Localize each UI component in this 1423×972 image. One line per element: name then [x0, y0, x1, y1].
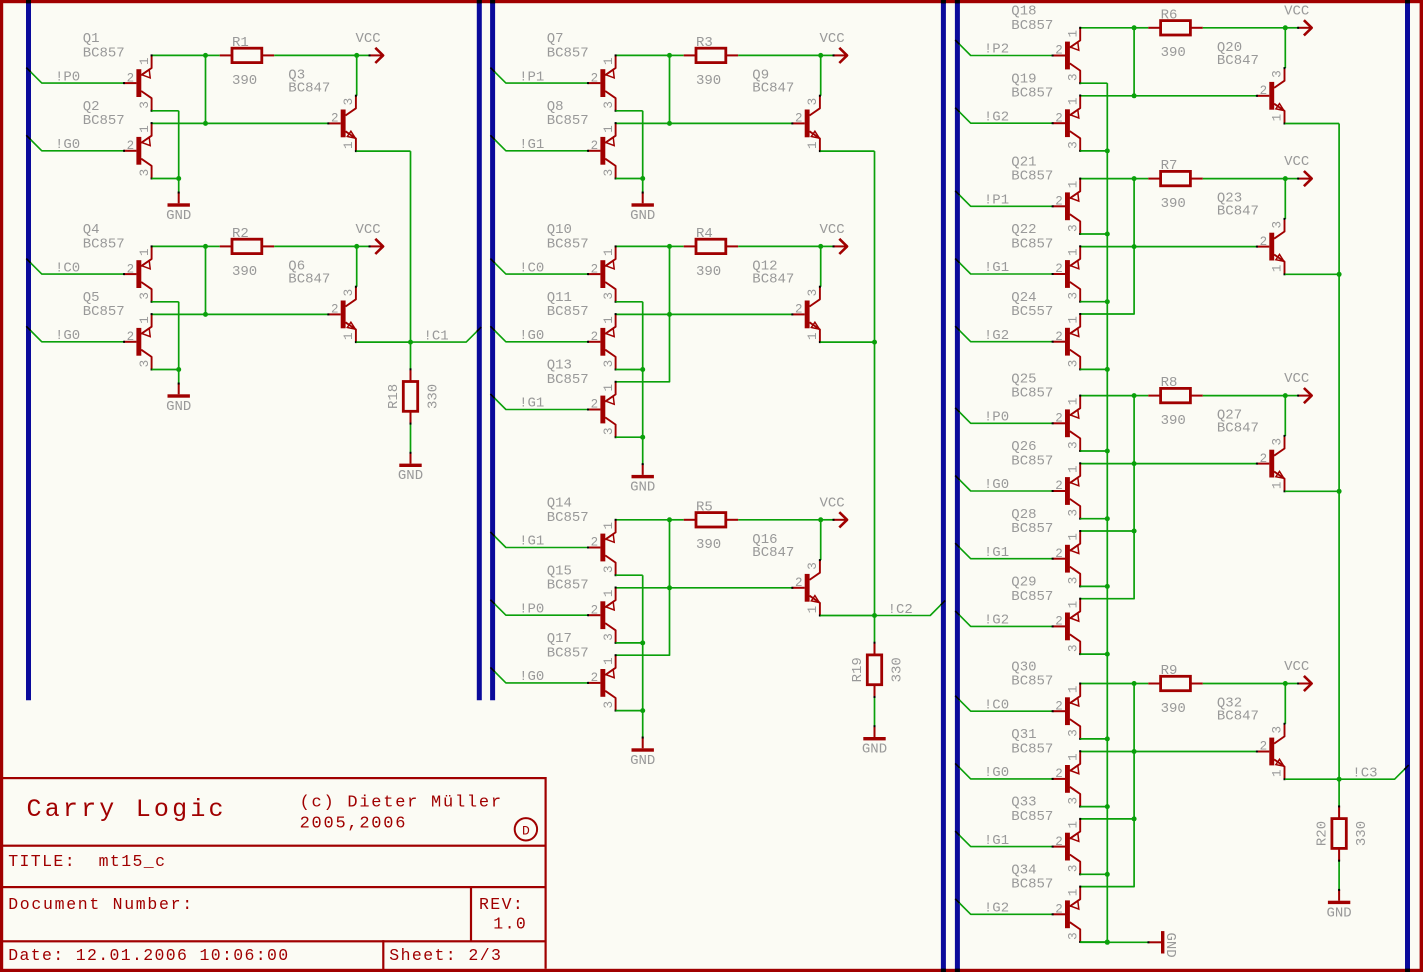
junction [1132, 529, 1137, 534]
wire [178, 111, 180, 179]
wire [152, 110, 179, 112]
wire [274, 54, 357, 56]
wire [1080, 819, 1134, 887]
svg-text:3: 3 [138, 292, 152, 300]
svg-text:!P2: !P2 [984, 42, 1009, 58]
transistor Q33 BC857 (PNP) [1011, 795, 1081, 876]
svg-text:BC857: BC857 [83, 113, 125, 129]
svg-text:1: 1 [342, 141, 356, 149]
svg-text:!C0: !C0 [984, 697, 1009, 713]
svg-text:R1: R1 [232, 35, 249, 51]
transistor Q11 BC857 (PNP) [547, 290, 617, 371]
svg-text:VCC: VCC [1284, 3, 1309, 19]
ground [1326, 889, 1351, 921]
wire [178, 370, 180, 384]
junction [667, 53, 672, 58]
svg-text:R6: R6 [1161, 7, 1178, 23]
wire [1284, 179, 1286, 219]
net !G1 [490, 135, 588, 153]
resistor R4 390 [670, 226, 739, 280]
net !P0 [955, 408, 1052, 426]
svg-text:1: 1 [1066, 821, 1080, 829]
wire [642, 179, 644, 193]
svg-text:1: 1 [602, 590, 616, 598]
junction [1132, 25, 1137, 30]
wire [642, 370, 644, 438]
VCC supply symbol [356, 31, 384, 63]
svg-text:BC857: BC857 [547, 304, 589, 320]
svg-text:!G2: !G2 [984, 901, 1009, 917]
svg-text:BC847: BC847 [752, 545, 794, 561]
svg-text:BC857: BC857 [1011, 674, 1053, 690]
svg-text:3: 3 [1066, 865, 1080, 873]
wire [1080, 873, 1107, 875]
junction [1105, 584, 1110, 589]
svg-text:3: 3 [806, 289, 820, 297]
net !G2 [955, 108, 1052, 126]
net !P0 [26, 68, 124, 86]
junction [1105, 516, 1110, 521]
svg-text:!G1: !G1 [519, 534, 544, 550]
net !C2 [875, 601, 946, 618]
title block frame [2, 777, 547, 971]
junction [1105, 367, 1110, 372]
junction [1105, 940, 1110, 945]
svg-text:1: 1 [602, 657, 616, 665]
svg-text:1: 1 [1066, 398, 1080, 406]
junction [1283, 25, 1288, 30]
svg-text:BC847: BC847 [752, 271, 794, 287]
net !P1 [955, 191, 1052, 209]
svg-text:!G0: !G0 [55, 137, 80, 153]
svg-text:Carry Logic: Carry Logic [27, 795, 227, 824]
wire [1203, 27, 1286, 29]
wire [205, 55, 207, 123]
transistor Q2 BC857 (PNP) [83, 99, 153, 180]
svg-text:!G1: !G1 [984, 545, 1009, 561]
svg-text:3: 3 [1066, 360, 1080, 368]
net !P0 [490, 600, 588, 618]
svg-text:1: 1 [806, 332, 820, 340]
wire [1203, 395, 1286, 397]
svg-text:1: 1 [1271, 482, 1285, 490]
transistor Q18 BC857 (PNP) [1011, 4, 1081, 85]
svg-text:330: 330 [426, 384, 442, 409]
resistor R7 390 [1134, 158, 1203, 212]
svg-text:1: 1 [342, 332, 356, 340]
net !C0 [490, 259, 588, 277]
junction [1105, 940, 1110, 945]
svg-text:2: 2 [795, 576, 803, 590]
VCC supply symbol [356, 222, 384, 254]
wire [616, 642, 643, 644]
net !C3 [1339, 765, 1409, 781]
transistor Q17 BC857 (PNP) [547, 631, 617, 712]
svg-text:1: 1 [1066, 533, 1080, 541]
wire (collector bus column 3) [1106, 83, 1108, 942]
junction [1283, 176, 1288, 181]
bus line (left) [26, 0, 31, 700]
svg-text:1: 1 [806, 606, 820, 614]
transistor Q1 BC857 (PNP) [83, 31, 153, 112]
wire [1080, 518, 1107, 520]
transistor Q31 BC857 (PNP) [1011, 727, 1081, 808]
svg-text:2: 2 [1055, 44, 1063, 58]
net !G0 [26, 135, 124, 153]
junction [1132, 816, 1137, 821]
wire [669, 246, 671, 314]
transistor Q16 BC847 (NPN) [752, 532, 821, 617]
svg-text:1: 1 [1271, 265, 1285, 273]
resistor R3 390 [670, 35, 739, 89]
junction [1105, 804, 1110, 809]
svg-text:!P0: !P0 [55, 69, 80, 85]
wire [616, 54, 670, 56]
junction [1337, 489, 1342, 494]
svg-text:GND: GND [630, 753, 655, 769]
svg-text:3: 3 [602, 169, 616, 177]
junction [640, 708, 645, 713]
wire [1080, 464, 1134, 531]
svg-text:3: 3 [1066, 509, 1080, 517]
svg-text:BC857: BC857 [83, 304, 125, 320]
bus line (middle pair, left) [477, 0, 482, 700]
svg-text:R3: R3 [696, 35, 713, 51]
wire [178, 179, 180, 193]
svg-text:BC847: BC847 [752, 80, 794, 96]
wire [616, 369, 643, 371]
transistor Q6 BC847 (NPN) [288, 258, 357, 343]
junction [640, 435, 645, 440]
junction [667, 244, 672, 249]
wire [616, 122, 793, 124]
wire [642, 111, 644, 179]
junction [1132, 461, 1137, 466]
junction [818, 517, 823, 522]
svg-text:BC857: BC857 [1011, 877, 1053, 893]
svg-text:Sheet: 2/3: Sheet: 2/3 [389, 946, 502, 965]
transistor Q10 BC857 (PNP) [547, 222, 617, 303]
net !G1 [490, 394, 588, 412]
svg-text:1: 1 [138, 249, 152, 257]
wire [738, 519, 821, 521]
transistor Q29 BC857 (PNP) [1011, 575, 1081, 656]
svg-text:(c) Dieter Müller: (c) Dieter Müller [300, 794, 503, 813]
svg-text:390: 390 [232, 73, 257, 89]
svg-text:2: 2 [591, 71, 599, 85]
junction [818, 244, 823, 249]
transistor Q19 BC857 (PNP) [1011, 71, 1081, 152]
svg-text:R4: R4 [696, 226, 713, 242]
svg-text:!C0: !C0 [519, 260, 544, 276]
svg-text:TITLE: mt15_c: TITLE: mt15_c [8, 852, 166, 871]
wire [1285, 273, 1339, 275]
VCC supply symbol [1284, 371, 1312, 403]
ground [398, 452, 423, 484]
svg-text:!C1: !C1 [424, 328, 449, 344]
svg-text:R18: R18 [386, 384, 402, 409]
junction [667, 312, 672, 317]
transistor Q3 BC847 (NPN) [288, 67, 357, 152]
wire [616, 519, 670, 521]
svg-text:3: 3 [806, 562, 820, 570]
transistor Q7 BC857 (PNP) [547, 31, 617, 112]
svg-text:BC857: BC857 [1011, 453, 1053, 469]
svg-text:390: 390 [1161, 45, 1186, 61]
net !C0 [26, 259, 124, 277]
junction [1105, 652, 1110, 657]
VCC supply symbol [820, 222, 848, 254]
svg-text:2: 2 [591, 671, 599, 685]
svg-text:BC857: BC857 [547, 372, 589, 388]
junction [667, 517, 672, 522]
svg-text:3: 3 [1066, 141, 1080, 149]
svg-text:1: 1 [1066, 316, 1080, 324]
svg-text:1: 1 [1271, 114, 1285, 122]
wire [1133, 179, 1135, 247]
junction [1105, 736, 1110, 741]
junction [1337, 272, 1342, 277]
svg-text:BC847: BC847 [288, 80, 330, 96]
svg-text:BC857: BC857 [1011, 169, 1053, 185]
wire [152, 178, 179, 180]
svg-text:2: 2 [591, 139, 599, 153]
VCC supply symbol [1284, 3, 1312, 35]
svg-text:2: 2 [1055, 479, 1063, 493]
wire [820, 520, 822, 560]
net !G1 [955, 543, 1052, 561]
junction [640, 176, 645, 181]
svg-text:2: 2 [1260, 740, 1268, 754]
svg-text:1: 1 [138, 125, 152, 133]
svg-text:390: 390 [696, 264, 721, 280]
svg-text:1: 1 [602, 522, 616, 530]
wire [1080, 233, 1107, 235]
wire [616, 436, 643, 438]
svg-text:BC857: BC857 [547, 237, 589, 253]
svg-text:VCC: VCC [1284, 659, 1309, 675]
resistor R5 390 [670, 499, 739, 553]
svg-text:BC857: BC857 [547, 510, 589, 526]
wire [820, 150, 874, 152]
svg-text:BC847: BC847 [1217, 709, 1259, 725]
svg-text:BC847: BC847 [1217, 53, 1259, 69]
ground [630, 192, 655, 224]
svg-text:3: 3 [138, 360, 152, 368]
svg-text:2: 2 [1260, 235, 1268, 249]
transistor Q25 BC857 (PNP) [1011, 371, 1081, 452]
svg-text:1: 1 [602, 249, 616, 257]
svg-text:BC847: BC847 [288, 271, 330, 287]
svg-text:GND: GND [166, 208, 191, 224]
svg-text:VCC: VCC [820, 31, 845, 47]
wire [356, 341, 410, 343]
wire [1203, 683, 1286, 685]
svg-text:2: 2 [1055, 412, 1063, 426]
resistor R18 330 [386, 342, 442, 453]
wire [1203, 178, 1286, 180]
wire [1080, 247, 1134, 314]
svg-text:3: 3 [1066, 441, 1080, 449]
junction [1105, 148, 1110, 153]
junction [667, 121, 672, 126]
svg-text:BC857: BC857 [1011, 809, 1053, 825]
junction [1132, 176, 1137, 181]
svg-text:!G1: !G1 [519, 396, 544, 412]
svg-text:GND: GND [1162, 933, 1178, 958]
svg-text:D: D [522, 823, 530, 838]
svg-text:330: 330 [1354, 821, 1370, 846]
svg-text:1: 1 [1066, 30, 1080, 38]
wire [1080, 941, 1107, 943]
svg-text:1: 1 [1066, 181, 1080, 189]
junction [1105, 232, 1110, 237]
svg-text:2: 2 [127, 330, 135, 344]
junction [203, 121, 208, 126]
svg-text:VCC: VCC [820, 495, 845, 511]
node IC2 junction [872, 613, 877, 618]
transistor Q30 BC857 (PNP) [1011, 659, 1081, 740]
resistor R20 330 [1315, 779, 1371, 890]
wire [1080, 806, 1107, 808]
svg-text:1: 1 [1066, 248, 1080, 256]
wire [1285, 123, 1339, 125]
ground (rotated) [1147, 931, 1178, 958]
node IC3 junction [1337, 777, 1342, 782]
svg-text:390: 390 [1161, 701, 1186, 717]
transistor Q22 BC857 (PNP) [1011, 222, 1081, 303]
wire [356, 246, 358, 286]
wire [1284, 28, 1286, 68]
wire [1080, 463, 1257, 465]
svg-text:1: 1 [1066, 98, 1080, 106]
svg-text:!G0: !G0 [519, 669, 544, 685]
svg-text:390: 390 [1161, 413, 1186, 429]
resistor R19 330 [850, 616, 906, 727]
svg-text:2: 2 [1055, 111, 1063, 125]
wire [152, 245, 206, 247]
wire [820, 615, 874, 617]
wire [205, 246, 207, 314]
wire [616, 710, 643, 712]
net !P1 [490, 68, 588, 86]
svg-text:!G2: !G2 [984, 328, 1009, 344]
wire [1080, 368, 1107, 370]
svg-text:VCC: VCC [356, 222, 381, 238]
wire [1080, 246, 1257, 248]
svg-text:2: 2 [1055, 195, 1063, 209]
svg-text:3: 3 [138, 169, 152, 177]
svg-text:1: 1 [1066, 465, 1080, 473]
svg-text:R2: R2 [232, 226, 249, 242]
svg-text:3: 3 [1066, 644, 1080, 652]
svg-text:1: 1 [138, 316, 152, 324]
svg-text:3: 3 [1271, 221, 1285, 229]
svg-text:3: 3 [1066, 729, 1080, 737]
svg-text:1: 1 [1066, 686, 1080, 694]
svg-text:!G2: !G2 [984, 613, 1009, 629]
svg-text:GND: GND [630, 208, 655, 224]
svg-text:3: 3 [342, 98, 356, 106]
svg-text:3: 3 [1271, 70, 1285, 78]
junction [203, 312, 208, 317]
wire [1080, 301, 1107, 303]
svg-text:2: 2 [795, 112, 803, 126]
svg-text:2: 2 [1055, 699, 1063, 713]
svg-text:3: 3 [1066, 224, 1080, 232]
wire [738, 54, 821, 56]
svg-text:3: 3 [1066, 292, 1080, 300]
svg-text:3: 3 [1066, 74, 1080, 82]
transistor Q15 BC857 (PNP) [547, 563, 617, 644]
transistor Q13 BC857 (PNP) [547, 358, 617, 439]
wire [1285, 490, 1339, 492]
wire [642, 302, 644, 370]
svg-text:2: 2 [1055, 615, 1063, 629]
svg-text:GND: GND [862, 742, 887, 758]
wire [1133, 396, 1135, 464]
svg-text:Document Number:: Document Number: [8, 895, 194, 914]
junction [354, 53, 359, 58]
svg-text:GND: GND [398, 468, 423, 484]
net !G0 [955, 763, 1052, 781]
wire [616, 301, 643, 303]
svg-text:2: 2 [1055, 903, 1063, 917]
wire [1080, 178, 1134, 180]
svg-text:VCC: VCC [1284, 371, 1309, 387]
transistor Q4 BC857 (PNP) [83, 222, 153, 303]
svg-text:2: 2 [1055, 330, 1063, 344]
svg-text:1: 1 [1066, 889, 1080, 897]
svg-text:!C3: !C3 [1352, 766, 1377, 782]
svg-text:R19: R19 [850, 657, 866, 682]
svg-text:GND: GND [630, 480, 655, 496]
net !G1 [955, 831, 1052, 849]
svg-text:2: 2 [591, 398, 599, 412]
svg-text:R9: R9 [1161, 663, 1178, 679]
wire [738, 245, 821, 247]
svg-text:2: 2 [1260, 452, 1268, 466]
node column 1 [0, 0, 1, 1]
circled D logo [515, 818, 537, 840]
net !P2 [955, 40, 1052, 58]
wire [152, 122, 329, 124]
svg-text:2: 2 [127, 262, 135, 276]
svg-text:BC857: BC857 [83, 237, 125, 253]
svg-text:!C0: !C0 [55, 260, 80, 276]
svg-text:3: 3 [602, 292, 616, 300]
svg-text:BC847: BC847 [1217, 204, 1259, 220]
svg-text:REV:: REV: [479, 895, 524, 914]
wire [1133, 684, 1135, 752]
resistor R9 390 [1134, 663, 1203, 717]
svg-text:3: 3 [806, 98, 820, 106]
wire [152, 369, 179, 371]
wire [820, 246, 822, 286]
svg-text:1: 1 [1066, 601, 1080, 609]
VCC supply symbol [820, 31, 848, 63]
wire [874, 151, 876, 615]
wire [642, 711, 644, 738]
wire [820, 341, 874, 343]
wire [356, 150, 410, 152]
wire [1080, 653, 1107, 655]
wire [820, 55, 822, 95]
wire [152, 54, 206, 56]
wire [616, 574, 643, 576]
transistor Q5 BC857 (PNP) [83, 290, 153, 371]
svg-text:2: 2 [1055, 262, 1063, 276]
